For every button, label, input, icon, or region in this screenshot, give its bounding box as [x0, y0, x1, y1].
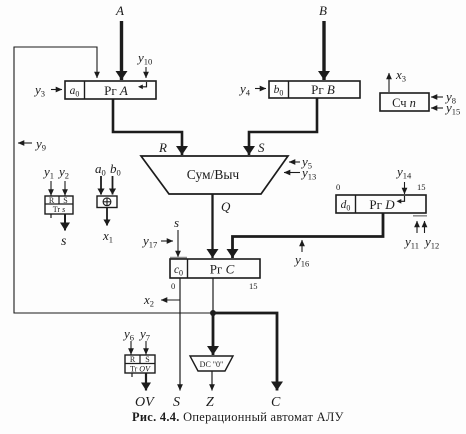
tick under Tr OV	[131, 373, 133, 377]
svg-text:Z: Z	[206, 395, 214, 410]
wire xor output to x1	[106, 208, 108, 226]
register RgD	[336, 195, 426, 213]
signal y11 arrow up under RgD	[416, 221, 418, 233]
svg-text:S: S	[258, 140, 265, 155]
svg-text:y4: y4	[238, 81, 251, 98]
signal y16 arrow up to D bus	[301, 240, 303, 252]
svg-text:OV: OV	[135, 395, 155, 410]
svg-text:Рг B: Рг B	[311, 82, 335, 97]
signal y8 arrow into Sch n	[431, 96, 443, 98]
svg-text:y11: y11	[403, 234, 419, 251]
wire RgA output to ALU input R	[113, 99, 182, 155]
tick under Tr s	[50, 214, 52, 218]
svg-text:B: B	[319, 3, 327, 18]
svg-text:Q: Q	[221, 199, 231, 214]
wire DC output to Z	[211, 371, 213, 391]
wire Tr s output to s	[64, 214, 66, 231]
svg-text:y10: y10	[136, 50, 152, 67]
wire RgC output down to junction	[212, 278, 214, 313]
register RgC	[170, 259, 260, 278]
svg-text:Рг D: Рг D	[369, 197, 395, 212]
wire Tr OV output to OV	[145, 373, 147, 391]
svg-text:Рг C: Рг C	[210, 262, 235, 277]
signal y15 arrow into Sch n	[431, 107, 443, 109]
alu Sum/Sub trapezoid	[141, 156, 288, 194]
svg-text:y7: y7	[138, 326, 150, 343]
signal y9 on feedback bus	[18, 142, 32, 144]
svg-text:Tr OV: Tr OV	[130, 365, 151, 374]
svg-text:y17: y17	[141, 233, 157, 250]
signal y17 arrow	[161, 240, 173, 242]
hatch mark under RgD right bits	[413, 215, 427, 217]
svg-text:Сум/Выч: Сум/Выч	[187, 167, 240, 182]
trigger Tr s box	[45, 196, 73, 214]
svg-text:y6: y6	[122, 326, 134, 343]
svg-text:y3: y3	[33, 82, 45, 99]
svg-text:Сч n: Сч n	[392, 96, 416, 110]
svg-text:R: R	[130, 355, 136, 364]
svg-text:x3: x3	[395, 67, 406, 84]
svg-text:y1: y1	[42, 164, 54, 181]
svg-text:S: S	[145, 355, 149, 364]
svg-text:Tr s: Tr s	[53, 205, 65, 214]
shift hook inside RgA (y10)	[142, 82, 147, 87]
svg-text:y14: y14	[395, 164, 412, 181]
signal y13 arrow into ALU right edge	[284, 172, 300, 174]
hatch mark above c0	[170, 257, 187, 259]
xor element inputs a0 b0	[100, 176, 102, 195]
svg-text:S: S	[63, 196, 67, 205]
signal y5 arrow into ALU right edge	[289, 161, 300, 163]
wire junction down into DC decoder	[212, 313, 215, 355]
svg-text:Рис. 4.4. Операционный автомат: Рис. 4.4. Операционный автомат АЛУ	[132, 410, 344, 424]
svg-text:DC "0": DC "0"	[200, 360, 224, 369]
counter Sch n box	[380, 93, 429, 111]
signal y10 arrow into RgA top	[145, 67, 147, 78]
wire c0 output down to S	[179, 278, 181, 391]
xor element box	[97, 196, 117, 208]
svg-text:y16: y16	[293, 252, 309, 269]
svg-text:A: A	[115, 3, 124, 18]
input A	[120, 21, 123, 80]
svg-text:C: C	[271, 395, 281, 410]
register RgA	[65, 81, 156, 99]
svg-text:0: 0	[171, 281, 175, 291]
wire Q from ALU to RgC	[211, 194, 213, 258]
signal x3 arrow up from Sch n	[388, 73, 390, 92]
signal y3 arrow into a0	[51, 89, 62, 91]
register RgB	[269, 81, 360, 98]
svg-text:Рг A: Рг A	[104, 83, 128, 98]
trigger Tr OV box	[125, 355, 155, 373]
svg-text:S: S	[173, 395, 180, 410]
shift hook inside RgD (y14)	[400, 196, 405, 201]
svg-text:0: 0	[336, 182, 340, 192]
svg-text:x2: x2	[143, 292, 154, 309]
node junction	[210, 310, 216, 316]
svg-text:15: 15	[249, 281, 258, 291]
input B	[322, 21, 325, 80]
signal s arrow into c0 top	[177, 230, 179, 257]
signal y4 arrow into b0	[255, 88, 266, 90]
trigger Tr s : input arrows y1 y2	[50, 181, 52, 196]
signal y14 arrow into RgD top	[404, 182, 406, 194]
svg-text:y12: y12	[423, 234, 439, 251]
svg-text:x1: x1	[102, 228, 113, 245]
svg-text:s: s	[174, 215, 179, 230]
signal y12 arrow up under RgD	[424, 221, 426, 233]
wire RgB output to ALU input S	[249, 98, 317, 155]
svg-text:y9: y9	[34, 136, 46, 153]
trigger Tr OV input arrows y6 y7	[130, 341, 132, 355]
wire feedback from RgC output bus up left side into RgA top	[14, 47, 213, 313]
wire junction to output C	[213, 313, 277, 391]
signal x2 branch arrow	[161, 299, 180, 301]
decoder DC "0"	[190, 356, 233, 371]
svg-text:a0: a0	[95, 161, 106, 178]
wire RgD output into RgC top	[233, 213, 384, 258]
svg-text:15: 15	[417, 182, 426, 192]
svg-text:s: s	[61, 234, 67, 249]
svg-text:b0: b0	[110, 161, 121, 178]
svg-text:R: R	[49, 196, 55, 205]
svg-text:y2: y2	[57, 164, 69, 181]
svg-text:R: R	[158, 140, 167, 155]
